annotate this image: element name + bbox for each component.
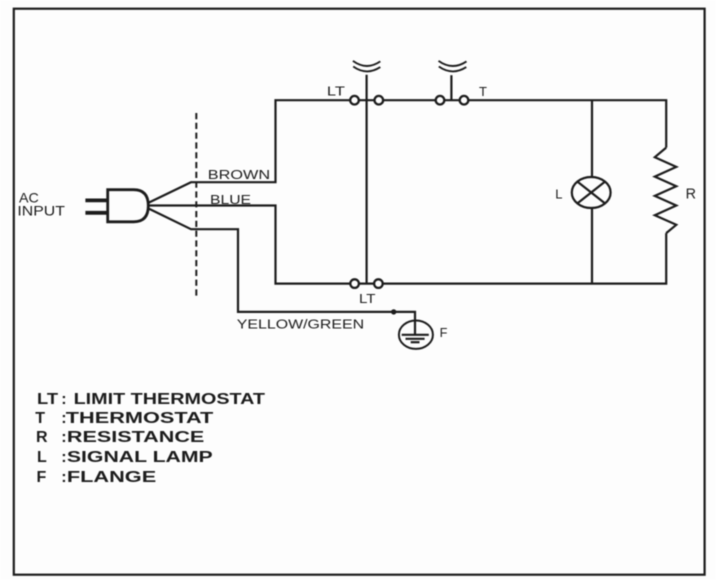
thermostat T contact circles (436, 96, 469, 105)
plug P (AC input plug) prong 1 (85, 198, 108, 202)
svg-text::: : (61, 469, 66, 486)
svg-text:THERMOSTAT: THERMOSTAT (66, 410, 214, 427)
legend line 2: T : THERMOSTAT (35, 410, 213, 427)
svg-text:F: F (440, 325, 448, 340)
limit thermostat LT thermal arcs (353, 61, 380, 72)
svg-text:LT: LT (327, 84, 345, 99)
label AC INPUT (17, 189, 65, 218)
svg-text:INPUT: INPUT (17, 203, 65, 219)
wire yellow/green (earth): plug to flange (148, 208, 416, 321)
svg-text:R: R (686, 186, 696, 202)
resistor R zigzag (655, 148, 677, 234)
svg-text:FLANGE: FLANGE (67, 469, 157, 486)
svg-text::: : (61, 449, 66, 466)
lamp branch wire (top) (591, 100, 593, 177)
svg-text:L: L (555, 186, 562, 201)
svg-text:L: L (37, 449, 47, 466)
thermostat T actuator link (450, 75, 452, 100)
flange earth symbol F (399, 321, 433, 349)
svg-text:SIGNAL LAMP: SIGNAL LAMP (67, 449, 213, 466)
svg-text:T: T (35, 410, 45, 427)
legend line 4: L : SIGNAL LAMP (37, 449, 213, 466)
svg-text:RESISTANCE: RESISTANCE (67, 429, 205, 446)
limit thermostat LT contact circles (bottom switch) (350, 279, 382, 288)
legend line 1: LT : LIMIT THERMOSTAT (37, 391, 265, 408)
svg-text:BLUE: BLUE (210, 192, 251, 207)
limit thermostat LT contact circles (top switch) (350, 96, 383, 105)
svg-text:F: F (37, 469, 47, 486)
thermostat T thermal arcs (439, 61, 467, 72)
svg-text:YELLOW/GREEN: YELLOW/GREEN (237, 317, 364, 332)
svg-text:T: T (479, 84, 487, 99)
legend line 3: R : RESISTANCE (36, 429, 205, 446)
plug P body (108, 190, 149, 222)
lamp branch wire (bottom) (591, 208, 593, 284)
svg-text::: : (61, 391, 66, 408)
svg-text:LT: LT (37, 391, 58, 408)
junction node on earth wire (391, 309, 396, 314)
svg-text:LIMIT THERMOSTAT: LIMIT THERMOSTAT (74, 391, 266, 408)
legend line 5: F : FLANGE (37, 469, 157, 486)
wire blue (neutral): plug to bottom rail and up to resistor bottom (148, 206, 667, 284)
svg-text:BROWN: BROWN (208, 167, 270, 182)
signal lamp L (572, 177, 611, 208)
wire brown (phase): plug to top rail and down right side to resistor (148, 100, 667, 203)
svg-text:R: R (36, 429, 48, 446)
dashed enclosure boundary line (195, 113, 197, 296)
svg-text:LT: LT (359, 291, 376, 306)
plug P prong 2 (85, 211, 108, 215)
svg-text::: : (61, 429, 66, 446)
limit thermostat LT actuator link (vertical through both contacts) (366, 75, 368, 283)
